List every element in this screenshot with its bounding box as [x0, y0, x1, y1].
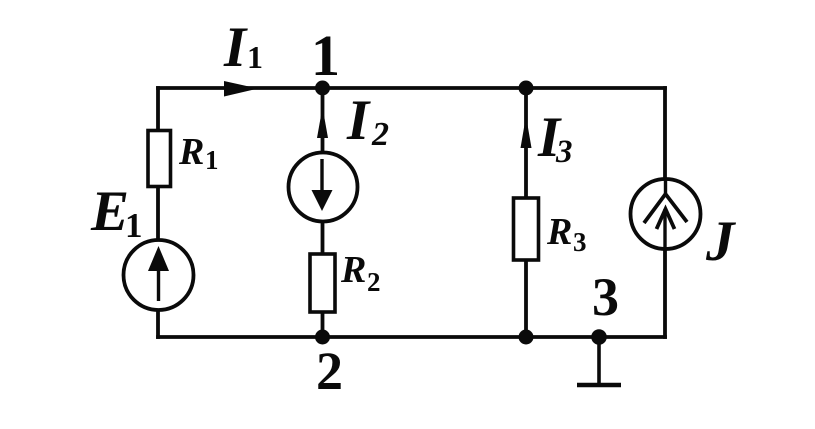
svg-text:2: 2 — [367, 267, 381, 297]
node 2 junction dot — [315, 330, 330, 345]
resistor R2 — [310, 254, 335, 312]
wire middle source to R2 — [321, 221, 325, 254]
wire left upper (corner to R1) — [156, 88, 160, 131]
wire node1 down to middle source — [321, 88, 325, 153]
svg-text:J: J — [705, 210, 736, 273]
current arrow I2 (up, below node 1) — [317, 107, 328, 138]
svg-text:E: E — [90, 180, 129, 243]
arrow shaft inside J — [663, 209, 666, 251]
svg-text:I: I — [346, 89, 371, 152]
svg-text:I: I — [223, 16, 248, 79]
svg-text:2: 2 — [316, 341, 343, 401]
junction dot bottom (R3 branch) — [519, 330, 534, 345]
svg-text:R: R — [178, 131, 204, 173]
svg-text:1: 1 — [247, 39, 263, 75]
node 1 junction dot — [315, 81, 330, 96]
svg-text:3: 3 — [592, 267, 619, 327]
node 3 junction dot — [591, 329, 607, 345]
current arrow I3 (up, below top node) — [521, 116, 532, 148]
wire top (node1 to right corner) — [158, 86, 665, 90]
svg-text:1: 1 — [125, 206, 143, 245]
current source J — [631, 179, 701, 251]
current source (middle branch, arrow down) — [289, 153, 358, 222]
resistor R1 — [148, 131, 171, 187]
current arrow I1 (on top wire) — [224, 81, 258, 97]
wire J to bottom right corner — [663, 250, 667, 337]
svg-text:2: 2 — [371, 116, 389, 153]
wire right upper (corner down to J) — [663, 88, 667, 180]
arrowhead — [657, 209, 675, 229]
wire R3 to bottom node — [524, 260, 528, 337]
wire top node to R3 — [524, 88, 528, 198]
svg-text:1: 1 — [205, 145, 219, 175]
wire R2 to node 2 — [321, 312, 325, 337]
svg-text:R: R — [546, 211, 572, 253]
wire R1 to E1 — [156, 187, 160, 241]
svg-text:1: 1 — [311, 23, 340, 88]
svg-text:R: R — [340, 249, 366, 291]
svg-text:3: 3 — [555, 134, 573, 170]
chevron — [644, 194, 687, 223]
wire stub into circle top — [664, 180, 667, 195]
junction dot top (R3 branch) — [519, 81, 534, 96]
wire bottom — [158, 335, 665, 339]
wire E1 to bottom — [156, 310, 160, 337]
ground — [577, 337, 621, 385]
resistor R3 — [514, 198, 539, 260]
voltage source E1 — [124, 240, 194, 310]
svg-text:3: 3 — [573, 227, 587, 257]
